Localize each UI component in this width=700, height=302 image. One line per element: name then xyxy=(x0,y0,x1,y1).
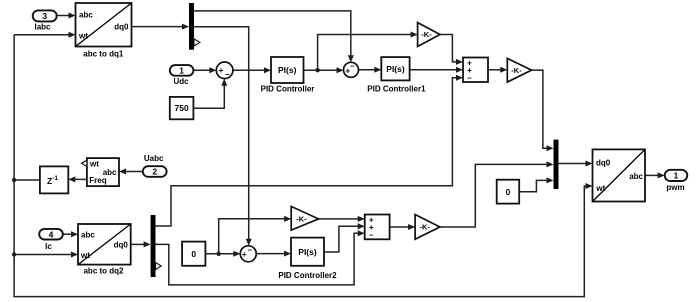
svg-text:-K-: -K- xyxy=(421,30,432,39)
svg-text:wt: wt xyxy=(80,251,90,260)
input port 3 Iabc xyxy=(33,10,57,31)
wire demux2 out1 to sumrect SR1 in3 xyxy=(156,78,458,226)
block abc to dq1 xyxy=(76,3,132,58)
svg-text:750: 750 xyxy=(175,103,189,113)
PLL block wt Freq abc xyxy=(82,158,120,186)
svg-text:0: 0 xyxy=(191,249,196,259)
node junction trunk wt upper xyxy=(12,178,16,182)
input port 1 Udc xyxy=(170,65,194,86)
wire demux1 out1 to sum S2 top xyxy=(194,11,351,57)
wire Uabc to PLL abc input xyxy=(125,171,143,173)
svg-text:abc: abc xyxy=(81,230,95,239)
wire sum S3 to PID Controller2 xyxy=(256,253,285,255)
op block PID Controller1 xyxy=(367,57,426,94)
wire trunk wt: left vertical from top corner down to bottom xyxy=(14,35,590,297)
svg-text:-K-: -K- xyxy=(511,66,522,75)
svg-text:–: – xyxy=(467,74,472,83)
sum rect SR1 xyxy=(463,58,488,83)
wire demux2 out2 to sumrect SR2 in3 xyxy=(156,233,359,285)
arrowheads xyxy=(69,13,76,19)
svg-text:abc to dq1: abc to dq1 xyxy=(83,49,124,58)
svg-text:PI(s): PI(s) xyxy=(298,247,317,257)
svg-text:0: 0 xyxy=(506,187,511,197)
wire constant zero bottom to sum S3 xyxy=(205,253,234,255)
svg-text:Freq: Freq xyxy=(89,176,106,185)
wire Udc to sum S1 xyxy=(193,69,210,71)
demux D1 xyxy=(189,3,200,50)
svg-text:PID Controller2: PID Controller2 xyxy=(278,271,337,280)
node junction at zero constant xyxy=(217,252,221,256)
svg-text:abc: abc xyxy=(79,11,93,20)
gain G4 xyxy=(291,206,318,230)
svg-text:PID Controller1: PID Controller1 xyxy=(367,85,426,94)
wire PID Controller to sum S2 xyxy=(304,69,338,71)
wire constant zero right to mux M1 in3 xyxy=(519,180,547,191)
wire PID Controller2 to sumrect SR2 in2 xyxy=(324,226,359,252)
svg-text:Iabc: Iabc xyxy=(34,22,51,31)
input port 4 Ic xyxy=(39,229,63,251)
svg-text:+: + xyxy=(242,250,247,259)
svg-text:-K-: -K- xyxy=(419,223,430,232)
wire sumrect SR1 to gain G2 xyxy=(488,69,502,71)
svg-text:4: 4 xyxy=(49,229,54,239)
svg-text:Udc: Udc xyxy=(173,77,189,86)
svg-text:pwm: pwm xyxy=(666,183,684,192)
wire PLL Freq to Z-1 xyxy=(74,178,87,180)
wire Ic to abc-to-dq2 xyxy=(63,233,72,235)
svg-text:–: – xyxy=(248,246,253,255)
svg-text:1: 1 xyxy=(674,171,679,181)
wire sum S1 to PID Controller xyxy=(233,69,265,71)
svg-text:–: – xyxy=(350,62,355,71)
wire junction up to gain G4 xyxy=(219,219,286,254)
mux M1 xyxy=(554,140,559,189)
svg-text:abc: abc xyxy=(629,172,643,181)
svg-text:+: + xyxy=(219,66,224,75)
svg-text:Ic: Ic xyxy=(45,242,52,251)
gain G2 xyxy=(507,58,531,82)
wire Z-1 output to trunk xyxy=(14,179,40,181)
wire sumrect SR2 to gain G3 xyxy=(390,226,410,228)
sum S3 xyxy=(240,246,256,262)
svg-text:PID Controller: PID Controller xyxy=(261,85,315,94)
svg-text:–: – xyxy=(369,230,374,239)
svg-text:3: 3 xyxy=(42,11,47,21)
svg-text:dq0: dq0 xyxy=(114,22,129,31)
wire gain G3 to mux M1 in2 xyxy=(440,164,548,227)
input port 2 Uabc xyxy=(143,154,167,177)
wire gain G4 to sumrect SR2 in1 xyxy=(319,218,359,220)
svg-text:1: 1 xyxy=(179,66,184,76)
constant 750 xyxy=(170,97,194,119)
node junction after PID Controller xyxy=(315,68,319,72)
wire mux M1 to dq0-to-abc xyxy=(559,163,587,165)
wire junction up to gain G1 xyxy=(318,35,412,71)
sum S1 xyxy=(216,62,233,79)
wire gain G1 to sumrect SR1 in1 xyxy=(440,35,457,62)
wire PID Controller1 to sumrect SR1 in2 xyxy=(410,69,457,71)
wire 750 to sum S1 bottom xyxy=(193,85,224,109)
gain G3 xyxy=(415,215,440,240)
wire sum S2 to PID Controller1 xyxy=(359,69,376,71)
gain G1 xyxy=(418,23,440,47)
svg-text:-K-: -K- xyxy=(296,214,307,223)
output port 1 pwm xyxy=(665,170,688,192)
node junction trunk wt lower xyxy=(12,252,16,256)
svg-text:wt: wt xyxy=(595,184,605,193)
wire demux1 out2 to sum S3 top xyxy=(194,27,249,240)
svg-text:Uabc: Uabc xyxy=(144,154,164,163)
sum S2 xyxy=(344,62,359,78)
svg-text:abc: abc xyxy=(103,168,117,177)
wire trunk to abc-to-dq2 wt xyxy=(14,254,72,256)
wire gain G2 to mux M1 in1 xyxy=(532,70,548,148)
wire abc-to-dq1 dq0 to demux1 xyxy=(132,26,184,28)
svg-text:PI(s): PI(s) xyxy=(386,64,405,74)
svg-text:dq0: dq0 xyxy=(596,159,611,168)
op block PID Controller2 xyxy=(278,238,337,280)
constant 0 right xyxy=(497,180,520,204)
block dq0 to abc xyxy=(593,149,646,201)
svg-text:wt: wt xyxy=(89,159,99,168)
sum rect SR2 xyxy=(365,215,390,240)
wire Iabc to abc-to-dq1 xyxy=(57,15,69,17)
block abc to dq2 xyxy=(78,224,131,275)
constant 0 bottom xyxy=(182,242,205,266)
demux D2 xyxy=(151,215,162,277)
svg-text:wt: wt xyxy=(78,31,88,40)
svg-text:PI(s): PI(s) xyxy=(278,65,297,75)
op block PID Controller xyxy=(261,57,315,94)
svg-text:dq0: dq0 xyxy=(114,241,129,250)
wire wt to abc-to-dq1 xyxy=(14,34,69,36)
wire abc-to-dq2 dq0 to demux2 xyxy=(131,243,145,245)
wire dq0-to-abc to pwm xyxy=(645,174,659,176)
svg-text:abc to dq2: abc to dq2 xyxy=(83,266,124,275)
unit delay Z-1 xyxy=(40,166,68,193)
svg-text:–: – xyxy=(225,70,230,79)
svg-text:2: 2 xyxy=(152,167,157,177)
